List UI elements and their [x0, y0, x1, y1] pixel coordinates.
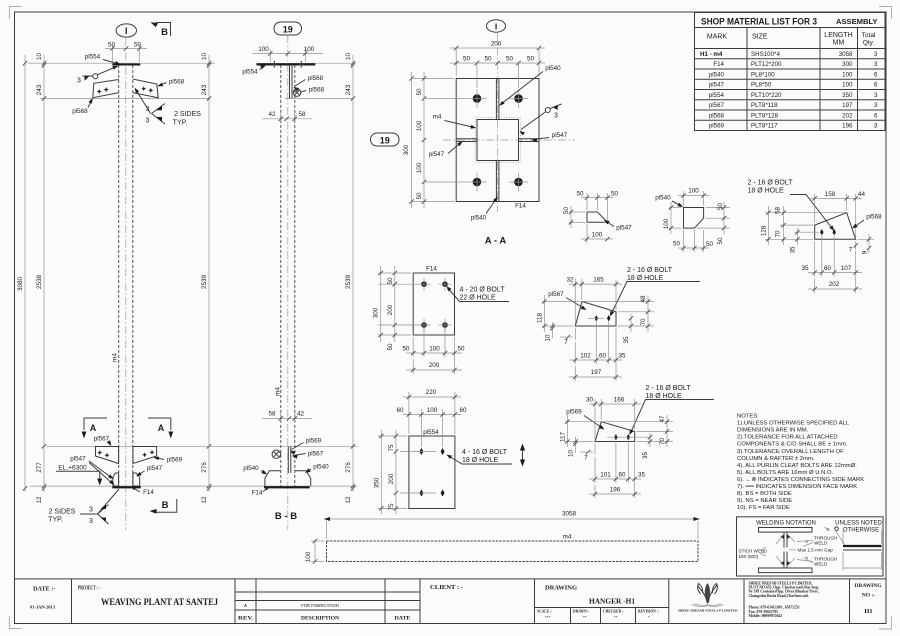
svg-text:158: 158 [825, 191, 836, 198]
label pl547 (right) with leader [136, 465, 163, 477]
svg-text:276: 276 [201, 462, 208, 473]
svg-text:70: 70 [775, 230, 782, 238]
svg-text:350: 350 [373, 477, 380, 488]
svg-text:2538: 2538 [36, 275, 43, 290]
top plate pl554 edge (B-B) [257, 63, 316, 65]
svg-text:CHECKED :-: CHECKED :- [603, 610, 625, 614]
svg-text:3058: 3058 [562, 511, 577, 518]
svg-text:100: 100 [842, 71, 853, 78]
dim 58/42 (B-B lower) [262, 411, 312, 423]
gusset edge-on (B-B bottom) [287, 447, 289, 474]
pl554 bolts (diamonds) [419, 448, 423, 455]
section bubble 19 (A-A left) [371, 133, 400, 146]
svg-text:SHS100*4: SHS100*4 [751, 51, 780, 58]
svg-text:35: 35 [618, 353, 626, 360]
drawing no cell [855, 583, 883, 615]
svg-text:10). FS = FAR SIDE: 10). FS = FAR SIDE [737, 505, 790, 511]
svg-text:165: 165 [593, 277, 604, 284]
svg-text:2539: 2539 [345, 275, 352, 290]
svg-text:58: 58 [775, 207, 782, 215]
label pl547 (A-A left) with leader [429, 141, 463, 158]
svg-text:pl569: pl569 [167, 457, 183, 464]
svg-text:PLT8*128: PLT8*128 [751, 112, 779, 119]
svg-text:SCALE :-: SCALE :- [537, 610, 553, 614]
svg-text:50: 50 [387, 277, 394, 285]
svg-text:101: 101 [600, 472, 611, 479]
svg-text:PROJECT : -: PROJECT : - [78, 585, 100, 592]
labels pl569/pl567 B-B with leaders [290, 438, 324, 459]
svg-text:2 - 16 Ø BOLT: 2 - 16 Ø BOLT [748, 180, 794, 187]
svg-text:pl568: pl568 [709, 112, 725, 119]
svg-text:35: 35 [642, 452, 649, 460]
label pl547 (left, with two leaders) [70, 456, 114, 486]
svg-text:CLIENT : -: CLIENT : - [430, 585, 463, 591]
svg-text:12: 12 [36, 496, 43, 504]
svg-text:60: 60 [396, 407, 404, 414]
svg-text:3: 3 [89, 518, 93, 525]
svg-text:Max 1.5 mm Gap: Max 1.5 mm Gap [798, 548, 834, 553]
dim 50x4 (A-A top) [450, 56, 545, 89]
section bubble I (left elevation) [116, 24, 136, 37]
svg-text:pl569: pl569 [566, 409, 582, 416]
svg-text:30: 30 [586, 397, 594, 404]
through weld labels [797, 536, 837, 567]
svg-text:4 - 20 Ø BOLT: 4 - 20 Ø BOLT [460, 287, 506, 294]
corner mark bottom-right [879, 617, 892, 630]
svg-text:pl540: pl540 [243, 465, 259, 472]
svg-text:pl567: pl567 [94, 436, 110, 443]
svg-text:35: 35 [801, 265, 809, 272]
svg-text:50: 50 [717, 237, 724, 245]
svg-text:4). ALL PURLIN CLEAT BOLTS ARE: 4). ALL PURLIN CLEAT BOLTS ARE 12mmØ. [737, 463, 857, 469]
svg-text:58: 58 [298, 111, 306, 118]
line at 243 level [40, 98, 210, 100]
svg-text:100: 100 [305, 551, 312, 562]
svg-text:Changodar Bavla Road,Chacharwa: Changodar Bavla Road,Chacharwadi. [749, 594, 809, 598]
svg-text:18 Ø HOLE: 18 Ø HOLE [748, 188, 785, 195]
svg-text:8). BS = BOTH SIDE: 8). BS = BOTH SIDE [737, 491, 792, 497]
bolts pl569 [614, 434, 618, 440]
svg-text:3: 3 [874, 92, 878, 99]
view mark B bottom [150, 499, 177, 514]
svg-text:pl554: pl554 [242, 69, 258, 76]
bolts pl567 [595, 315, 599, 321]
svg-text:EL.+6300: EL.+6300 [58, 465, 87, 472]
svg-text:pl567: pl567 [709, 102, 725, 109]
svg-text:PLT8*117: PLT8*117 [751, 123, 778, 130]
pl568 detail dims [761, 191, 875, 293]
svg-text:42: 42 [297, 411, 305, 418]
svg-text:22 Ø HOLE: 22 Ø HOLE [460, 295, 497, 302]
svg-text:3: 3 [146, 106, 150, 113]
label F14 with leader [133, 487, 155, 496]
label pl540 (A-A top) with leader [499, 65, 561, 106]
svg-text:A: A [158, 423, 165, 433]
svg-text:m4: m4 [275, 387, 282, 396]
svg-text:pl547: pl547 [147, 465, 163, 472]
svg-text:100: 100 [416, 120, 423, 131]
svg-text:220: 220 [426, 389, 437, 396]
svg-text:pl540: pl540 [655, 195, 671, 202]
svg-text:50: 50 [108, 42, 116, 49]
label pl568 left-top with leader [72, 98, 93, 115]
svg-text:pl547: pl547 [552, 132, 568, 139]
label pl568 right-top with leader [157, 79, 184, 87]
long line at 446 level [46, 445, 358, 447]
svg-text:***: *** [545, 616, 551, 620]
svg-text:F14: F14 [426, 266, 437, 273]
title block frame [15, 579, 887, 624]
svg-text:19: 19 [380, 135, 390, 145]
plus bolts on plate [271, 61, 305, 68]
svg-text:12: 12 [201, 496, 208, 504]
dim stack right of left elevation [201, 53, 211, 504]
dim 200 (A-A top) [450, 41, 545, 77]
dim 50/100/100/50 (A-A left) [416, 72, 467, 208]
svg-text:350: 350 [842, 92, 853, 99]
svg-text:50: 50 [402, 346, 410, 353]
svg-text:200: 200 [429, 362, 440, 369]
svg-text:47: 47 [659, 415, 666, 423]
243 level line B-B [285, 98, 353, 100]
svg-text:3).TOLERANCE OVERALL LENGTH OF: 3).TOLERANCE OVERALL LENGTH OF [737, 449, 844, 455]
svg-text:243: 243 [345, 84, 352, 95]
svg-text:166: 166 [614, 397, 625, 404]
section bubble 19 (B-B view top) [274, 22, 302, 35]
gusset pl568 right (top) [133, 79, 158, 98]
right dim stack of B-B [345, 53, 355, 504]
svg-text:PL8*100: PL8*100 [751, 71, 775, 78]
base plate F14 (B-B) [264, 486, 310, 488]
dim 50/50 top of left elevation [105, 42, 147, 63]
svg-text:DATE :-: DATE :- [33, 587, 56, 593]
svg-text:TYP.: TYP. [48, 517, 63, 524]
svg-text:44: 44 [858, 191, 866, 198]
svg-text:PLT8*118: PLT8*118 [751, 102, 778, 109]
max gap label [789, 548, 833, 553]
weld symbol 3 (A-A) [519, 104, 561, 136]
column m4 square (A-A) [477, 120, 519, 161]
svg-text:REVISION :-: REVISION :- [638, 610, 660, 614]
svg-text:50: 50 [506, 56, 514, 63]
detail pl547 shape [587, 212, 608, 222]
svg-text:9: 9 [861, 250, 868, 254]
svg-text:10: 10 [36, 53, 43, 61]
corner mark bottom-left [9, 616, 21, 629]
svg-text:50: 50 [416, 88, 423, 96]
label m4 (A-A) with leader [433, 114, 477, 129]
svg-text:F14: F14 [252, 490, 263, 497]
svg-text:50: 50 [576, 190, 584, 197]
svg-text:SHOP MATERIAL LIST FOR 3: SHOP MATERIAL LIST FOR 3 [701, 17, 817, 27]
extension to right stack [315, 62, 353, 64]
svg-text:F14: F14 [515, 203, 526, 210]
svg-text:276: 276 [345, 462, 352, 473]
svg-text:1).UNLESS OTHERWISE SPECIFIED: 1).UNLESS OTHERWISE SPECIFIED ALL [737, 421, 850, 427]
address block [749, 581, 820, 618]
svg-text:200: 200 [491, 41, 502, 48]
svg-text:DRAWING: DRAWING [545, 586, 577, 592]
svg-text:UNLESS NOTED: UNLESS NOTED [835, 521, 882, 527]
svg-text:H1 - m4: H1 - m4 [700, 51, 723, 58]
svg-text:B - B: B - B [275, 511, 297, 522]
svg-text:pl568: pl568 [308, 75, 324, 82]
svg-text:pl547: pl547 [616, 225, 632, 232]
svg-text:50: 50 [717, 203, 724, 211]
svg-text:100: 100 [258, 46, 269, 53]
svg-text:70: 70 [640, 318, 647, 326]
text 2-16 bolt pl569 [629, 385, 714, 435]
svg-text:pl547: pl547 [429, 151, 445, 158]
svg-text:7: 7 [564, 339, 568, 346]
svg-text:Mobile: 09099972642: Mobile: 09099972642 [749, 614, 783, 618]
svg-text:7: 7 [849, 247, 853, 254]
F14 detail dims [373, 266, 465, 374]
bolts pl568 detail [820, 229, 824, 235]
svg-text:3: 3 [89, 507, 93, 514]
svg-text:10: 10 [345, 53, 352, 61]
detail pl554 plate [409, 436, 455, 509]
dim 300 (A-A left) [403, 72, 454, 208]
svg-text:A: A [244, 603, 247, 608]
svg-text:NO :-: NO :- [862, 593, 876, 599]
svg-text:MM: MM [833, 40, 845, 47]
svg-text:DESCRIPTION: DESCRIPTION [301, 616, 339, 622]
label pl540 (A-A bottom) with leader [471, 197, 498, 222]
svg-text:50: 50 [457, 346, 465, 353]
base plates pl540 (B-B) [265, 471, 311, 486]
svg-text:197: 197 [591, 369, 602, 376]
svg-text:DRAWN:-: DRAWN:- [573, 610, 590, 614]
svg-text:pl568: pl568 [169, 79, 185, 86]
svg-text:202: 202 [842, 112, 853, 119]
shop material list table [695, 13, 886, 131]
svg-text:F14: F14 [713, 61, 724, 68]
weld 3/3 2 SIDES TYP (bottom) [48, 489, 119, 525]
svg-text:50: 50 [416, 192, 423, 200]
svg-text:COMPONENTS & C/D SHALL BE ±: COMPONENTS & C/D SHALL BE ± 1mm. [737, 442, 848, 448]
svg-text:202: 202 [829, 281, 840, 288]
svg-text:10: 10 [568, 450, 575, 458]
svg-text:2539: 2539 [201, 275, 208, 290]
svg-text:2 SIDES: 2 SIDES [174, 111, 201, 118]
svg-text:Total: Total [862, 32, 876, 39]
svg-text:35: 35 [790, 246, 797, 254]
svg-text:100: 100 [592, 232, 603, 239]
svg-text:FOR FABRICATION: FOR FABRICATION [301, 603, 339, 608]
svg-text:18 Ø HOLE: 18 Ø HOLE [627, 275, 664, 282]
base plate F14 outline (A-A) [456, 79, 539, 202]
svg-text:LENGTH: LENGTH [824, 32, 852, 39]
svg-text:TYP.: TYP. [173, 120, 188, 127]
label pl554 with leader [85, 54, 121, 65]
svg-text:9). NS = NEAR SIDE: 9). NS = NEAR SIDE [737, 498, 792, 504]
pl567 detail dims [537, 277, 655, 382]
svg-text:m4: m4 [112, 353, 119, 362]
label pl569 detail [566, 409, 604, 430]
revision table [235, 579, 420, 624]
svg-text:3080: 3080 [17, 277, 24, 292]
svg-text:OTHERWISE: OTHERWISE [843, 528, 879, 534]
svg-text:100: 100 [304, 46, 315, 53]
svg-text:01-JAN-2013: 01-JAN-2013 [30, 605, 56, 610]
svg-text:50: 50 [563, 207, 570, 215]
bolts A-A (4x M20) [468, 89, 487, 108]
svg-text:pl540: pl540 [545, 65, 561, 72]
label F14 B-B [252, 488, 268, 497]
connecting side mark arrow (double) [520, 444, 525, 467]
svg-text:6: 6 [874, 82, 878, 89]
EL.+6300 mark [56, 465, 102, 486]
svg-text:pl547: pl547 [70, 456, 86, 463]
pl554 detail dims [373, 389, 467, 514]
text 2-16 bolt pl568 [748, 180, 835, 232]
corner mark top-right [879, 7, 892, 20]
svg-text:pl568: pl568 [866, 214, 882, 221]
detail pl540 shape [684, 208, 704, 229]
svg-text:PLT12*200: PLT12*200 [751, 61, 782, 68]
svg-text:75: 75 [388, 503, 395, 511]
svg-text:50: 50 [527, 56, 535, 63]
svg-text:100: 100 [688, 188, 699, 195]
corner mark top-left [9, 7, 21, 20]
svg-text:277: 277 [36, 462, 43, 473]
svg-text:3: 3 [77, 78, 81, 85]
svg-text:3: 3 [874, 51, 878, 58]
label pl547 detail [604, 220, 632, 232]
svg-text:60: 60 [618, 472, 626, 479]
detail pl568 shape [815, 213, 856, 240]
svg-text:19: 19 [283, 24, 293, 34]
svg-text:COLUMN & RAFTER ± 2mm.: COLUMN & RAFTER ± 2mm. [737, 456, 815, 462]
svg-text:102: 102 [580, 353, 591, 360]
svg-text:100: 100 [427, 407, 438, 414]
detail pl569 shape [595, 422, 635, 442]
svg-text:DRAWING: DRAWING [855, 583, 883, 589]
weld 3/3 2 SIDES TYP (top) [135, 88, 202, 127]
svg-text:ASSEMBLY: ASSEMBLY [836, 17, 878, 26]
company logo [692, 583, 724, 606]
svg-text:10: 10 [201, 53, 208, 61]
stich weld label [739, 547, 768, 559]
label pl540 detail [655, 195, 683, 208]
svg-text:117: 117 [559, 431, 566, 442]
base plates pl547 left elevation [113, 473, 140, 486]
svg-text:Qty.: Qty. [863, 40, 875, 47]
svg-text:m4: m4 [563, 534, 572, 541]
labels pl540 B-B [243, 464, 329, 475]
column m4 left elevation (dashed edges + centerline) [119, 38, 133, 530]
detail pl567 shape [575, 302, 616, 327]
svg-text:35: 35 [623, 336, 630, 344]
top extension line y63.3 [28, 62, 216, 64]
svg-text:48: 48 [640, 295, 647, 303]
svg-text:A - A: A - A [485, 236, 507, 247]
svg-text:75: 75 [388, 444, 395, 452]
svg-text:243: 243 [201, 84, 208, 95]
F14 bolts [418, 278, 431, 291]
top plate pl554 edge (left elevation) [112, 63, 140, 65]
svg-text:196: 196 [842, 123, 853, 130]
svg-text:SIZE: SIZE [752, 34, 768, 41]
svg-text:pl540: pl540 [709, 71, 725, 78]
label pl554 B-B with leader [242, 65, 266, 76]
svg-text:5). ALL BOLTS ARE 16mm Ø U.N.O: 5). ALL BOLTS ARE 16mm Ø U.N.O. [737, 470, 834, 476]
svg-text:10: 10 [545, 334, 552, 342]
gusset pl569 right (bottom) [133, 447, 157, 464]
date cell [30, 587, 56, 610]
svg-text:243: 243 [36, 84, 43, 95]
svg-text:42: 42 [268, 111, 276, 118]
svg-text:7). ══ INDICATES DIMENSION FAC: 7). ══ INDICATES DIMENSION FACE MARK [737, 484, 857, 490]
svg-text:m4: m4 [433, 114, 442, 121]
labels pl568 B-B with leaders [293, 75, 324, 94]
svg-text:pl569: pl569 [709, 123, 725, 130]
project cell [78, 585, 218, 608]
svg-text:50: 50 [387, 343, 394, 351]
weld diagram plates [759, 528, 813, 573]
pl547 detail dims [563, 190, 618, 243]
svg-text:2 SIDES: 2 SIDES [49, 509, 76, 516]
svg-text:100: 100 [842, 82, 853, 89]
svg-text:128: 128 [761, 225, 768, 236]
svg-text:60: 60 [824, 265, 832, 272]
svg-text:300: 300 [842, 61, 853, 68]
connecting side mark (circle-X) B-B bottom [272, 450, 280, 458]
label pl547 (A-A right) with leader [531, 132, 567, 142]
dim 3058 [324, 511, 701, 540]
svg-text:3058: 3058 [839, 51, 853, 58]
svg-text:4 - 16 Ø BOLT: 4 - 16 Ø BOLT [462, 449, 508, 456]
svg-text:200: 200 [387, 304, 394, 315]
svg-text:REV.: REV. [238, 616, 254, 622]
svg-text:pl569: pl569 [306, 438, 322, 445]
detail F14 plate [413, 273, 454, 335]
svg-text:pl554: pl554 [85, 54, 101, 61]
label pl567 with leader [94, 436, 111, 447]
pl540 detail dims [663, 188, 730, 253]
centerlines A-A [497, 33, 499, 212]
view mark B top [151, 22, 171, 38]
svg-text:pl568: pl568 [72, 108, 88, 115]
svg-text:200: 200 [388, 473, 395, 484]
connecting side mark (circle-X) B-B top [293, 89, 301, 97]
svg-text:WELD: WELD [814, 541, 828, 546]
svg-text:2).TOLERANCE FOR ALL ATTACHED: 2).TOLERANCE FOR ALL ATTACHED [737, 435, 838, 441]
svg-text:3: 3 [554, 113, 558, 120]
text 2-16 bolt pl567 [610, 267, 700, 317]
svg-text:pl554: pl554 [709, 92, 725, 99]
svg-text:WELD: WELD [814, 562, 828, 567]
dim 100/100 top of B-B [252, 46, 323, 62]
svg-text:2 - 16 Ø BOLT: 2 - 16 Ø BOLT [627, 267, 673, 274]
svg-text:12: 12 [345, 496, 352, 504]
svg-text:WELDING NOTATION: WELDING NOTATION [756, 521, 816, 527]
svg-text:118: 118 [537, 312, 544, 323]
svg-text:I: I [125, 26, 128, 36]
svg-text:32: 32 [566, 277, 574, 284]
svg-text:H1: H1 [864, 608, 872, 615]
svg-text:pl554: pl554 [423, 429, 439, 436]
text 4-20 bolt F14 [446, 286, 509, 302]
svg-text:50: 50 [611, 190, 619, 197]
long line at 486 base level [30, 485, 358, 487]
svg-text:50: 50 [484, 56, 492, 63]
svg-text:pl540: pl540 [313, 464, 329, 471]
svg-text:**: ** [583, 616, 587, 620]
svg-text:300: 300 [373, 307, 380, 318]
svg-text:**: ** [614, 616, 618, 620]
